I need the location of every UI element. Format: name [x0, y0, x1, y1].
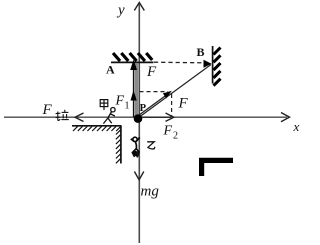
svg-text:mg: mg: [141, 184, 160, 200]
svg-text:F: F: [146, 64, 157, 80]
svg-text:x: x: [293, 119, 300, 134]
svg-text:F: F: [115, 94, 125, 109]
svg-text:B: B: [197, 45, 205, 59]
svg-text:2: 2: [173, 131, 178, 142]
svg-text:A: A: [106, 63, 115, 77]
svg-text:y: y: [116, 3, 125, 19]
svg-text:P: P: [140, 103, 147, 114]
svg-text:1: 1: [125, 101, 130, 112]
svg-text:F: F: [163, 124, 173, 139]
svg-text:F: F: [178, 96, 189, 112]
svg-text:F: F: [42, 102, 53, 118]
